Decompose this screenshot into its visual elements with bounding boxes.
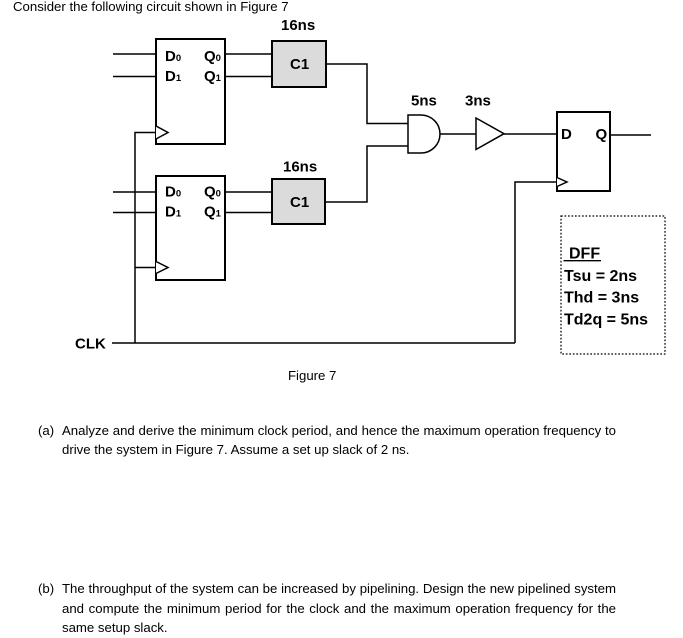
svg-text:D: D (561, 126, 572, 143)
flip-flop U3 box (557, 112, 610, 191)
svg-text:3ns: 3ns (465, 93, 491, 110)
svg-text:DFF: DFF (569, 245, 600, 262)
paragraph (a) (38, 421, 616, 460)
AND gate (408, 115, 440, 153)
DFF spec underline (564, 260, 602, 262)
DFF spec note dotted box (561, 216, 665, 354)
svg-text:Q: Q (596, 126, 608, 143)
title text (13, 0, 289, 17)
svg-text:Thd = 3ns: Thd = 3ns (564, 289, 639, 306)
wire R2 input D1 (113, 212, 156, 214)
wire CLK right trunk to DFF clock (515, 182, 557, 343)
svg-text:C1: C1 (290, 194, 309, 211)
wire buffer output to DFF D (504, 133, 557, 135)
register R2 box (156, 176, 225, 280)
svg-text:C1: C1 (290, 56, 309, 73)
wire R1 input D0 (113, 53, 156, 55)
register R1 box (156, 39, 225, 144)
wire R2 Q0 to C1b (225, 191, 272, 193)
svg-text:Td2q = 5ns: Td2q = 5ns (564, 311, 648, 328)
wire R1 Q1 to C1a (225, 76, 272, 78)
wire R1 input D1 (113, 76, 156, 78)
svg-text:CLK: CLK (75, 336, 106, 353)
wire C1b output to AND bottom input (325, 146, 408, 202)
wire DFF Q output (610, 134, 651, 136)
svg-text:16ns: 16ns (283, 159, 317, 176)
svg-text:5ns: 5ns (411, 93, 437, 110)
wire CLK branch to R2 clock (135, 267, 156, 269)
combinational block C1b box (272, 179, 325, 224)
wire R2 input D0 (113, 191, 156, 193)
combinational block C1a box (272, 41, 326, 87)
flip-flop U3 clock wedge (557, 178, 567, 187)
paragraph (b) (38, 579, 616, 638)
wire CLK left trunk to R1 clock (135, 133, 156, 344)
register R2 clock wedge (156, 262, 168, 274)
wire C1a output to AND top input (326, 64, 408, 124)
wire R2 Q1 to C1b (225, 212, 272, 214)
register R1 clock wedge (156, 126, 168, 139)
wire CLK horizontal line (112, 342, 515, 344)
buffer gate (476, 118, 504, 150)
svg-text:Tsu = 2ns: Tsu = 2ns (564, 268, 637, 285)
wire AND output to buffer (440, 133, 476, 135)
wire R1 Q0 to C1a (225, 53, 272, 55)
figure caption (288, 366, 336, 386)
svg-text:16ns: 16ns (281, 17, 315, 34)
